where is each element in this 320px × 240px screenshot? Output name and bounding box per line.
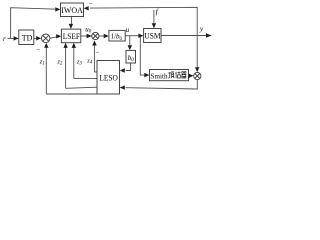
wire Smith to S3	[189, 75, 191, 77]
block Smith predictor	[150, 70, 189, 81]
arrowhead into USM left	[138, 34, 143, 38]
arrowhead into S3 left (Smith)	[189, 74, 194, 78]
block USM	[144, 29, 161, 43]
wire u branch down to b0	[129, 36, 131, 47]
summing junction S2	[92, 32, 99, 39]
wire b0 down and left into LESO	[126, 63, 131, 71]
svg-text:b0: b0	[128, 54, 135, 63]
wire LSEF to S2	[81, 35, 92, 37]
wire r branch up to IWOA input	[11, 8, 57, 39]
arrowhead into LSEF top (IWOA)	[69, 24, 73, 29]
svg-text:TD: TD	[22, 33, 33, 42]
svg-text:u0: u0	[85, 25, 92, 34]
arrowhead into TD	[14, 36, 19, 40]
wire 1/b0 to USM (u line)	[125, 35, 139, 37]
wire IWOA down to LSEF	[70, 17, 72, 26]
summing junction S1	[41, 34, 50, 43]
arrowhead into USM top (f)	[152, 23, 156, 28]
arrowhead into S2 left	[87, 34, 92, 38]
arrowhead into LSEF bottom (z3)	[72, 43, 76, 48]
svg-text:Smith: Smith	[150, 71, 167, 80]
block b0	[126, 50, 136, 63]
svg-text:USM: USM	[144, 32, 160, 41]
arrowhead into IWOA left	[55, 7, 60, 11]
wire z4 stub to LESO left edge	[94, 71, 97, 73]
wire r input to TD	[8, 37, 17, 39]
wire S2 to 1/b0	[99, 35, 105, 37]
arrowhead into LSEF bottom (z2)	[63, 43, 67, 48]
arrowhead into 1/b0	[104, 34, 109, 38]
wire z1 horizontal from LESO bottom-left	[46, 93, 97, 95]
arrowhead into Smith left	[144, 73, 149, 77]
summing junction S3	[194, 72, 201, 79]
wire USM to output y	[161, 35, 211, 37]
器	[181, 72, 186, 78]
svg-text:z2: z2	[57, 58, 64, 66]
svg-text:LSEF: LSEF	[63, 32, 81, 41]
svg-text:y: y	[199, 24, 204, 33]
arrowhead output y	[206, 33, 212, 38]
wire z4 riser to S2 bottom	[93, 42, 95, 72]
svg-text:−: −	[89, 0, 93, 7]
wire z3 horizontal to LESO left edge	[74, 77, 97, 79]
wire z1 riser to S1	[45, 46, 47, 94]
arrowhead into b0 top	[128, 45, 132, 50]
wire z3 riser to LSEF bottom	[73, 46, 75, 79]
svg-text:−: −	[96, 49, 100, 57]
arrowhead into IWOA right	[84, 6, 89, 10]
wire u branch down to Smith predictor	[140, 36, 144, 75]
arrowhead into S2 bottom (z4)	[92, 40, 96, 45]
svg-text:−: −	[36, 46, 40, 54]
block LSEF	[61, 29, 80, 43]
svg-text:r: r	[3, 35, 6, 43]
估	[176, 72, 181, 79]
svg-text:f: f	[156, 7, 159, 16]
wire z2 horizontal to LESO left edge	[66, 87, 97, 88]
block TD	[19, 30, 34, 45]
svg-text:z4: z4	[86, 57, 93, 65]
wire TD to S1	[34, 37, 39, 39]
block 1/b0	[109, 30, 125, 41]
svg-text:z1: z1	[39, 58, 45, 66]
arrowhead into S1 left	[36, 36, 41, 40]
svg-text:z3: z3	[76, 58, 83, 66]
svg-text:LESO: LESO	[99, 74, 117, 83]
svg-text:IWOA: IWOA	[61, 6, 83, 15]
wire output feedback up and left to IWOA	[90, 7, 197, 35]
block LESO	[97, 61, 120, 95]
wire z2 riser to LSEF bottom	[65, 46, 67, 89]
arrowhead into S3 top	[195, 67, 199, 72]
wire output feedback down to S3	[196, 36, 198, 70]
svg-text:1/b0: 1/b0	[111, 33, 123, 42]
wire S1 to LSEF	[50, 36, 58, 38]
wire f input down to USM	[153, 10, 155, 25]
wire S3 down and left into LESO	[126, 80, 198, 89]
arrowhead into LSEF left	[56, 34, 61, 38]
arrowhead into S1 bottom (z1)	[44, 43, 48, 48]
arrowhead into LESO right (b0)	[120, 68, 125, 72]
arrowhead into LESO right (S3 feedback)	[120, 85, 125, 89]
svg-text:u: u	[126, 26, 130, 34]
block IWOA	[61, 3, 84, 17]
label Chinese 预估器 (hand-drawn strokes)	[169, 72, 187, 79]
预	[169, 72, 175, 79]
